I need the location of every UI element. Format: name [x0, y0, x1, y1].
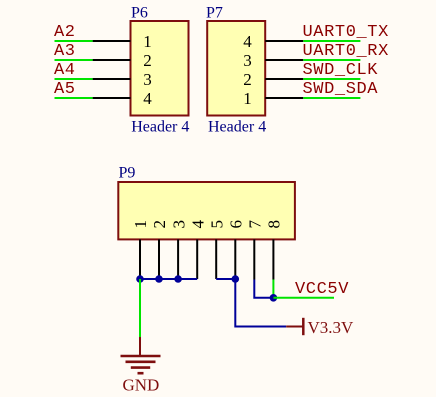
pin 8 (P9): [265, 220, 284, 280]
pin 4 (P6): [93, 89, 153, 108]
pin 7 (P9): [246, 220, 265, 280]
svg-text:7: 7: [246, 220, 265, 229]
wire pin7 elbow (blue): [254, 280, 273, 298]
svg-text:V3.3V: V3.3V: [308, 318, 355, 337]
pin 3 (P9): [169, 220, 188, 279]
svg-text:SWD_SDA: SWD_SDA: [303, 80, 379, 99]
svg-text:3: 3: [169, 220, 188, 229]
pin 2 (P7): [243, 70, 303, 89]
svg-text:P6: P6: [131, 5, 148, 22]
wire net UART0_TX: [303, 40, 360, 42]
svg-text:8: 8: [265, 220, 284, 229]
pin 1 (P7): [243, 89, 303, 108]
svg-text:P7: P7: [206, 5, 223, 22]
svg-text:UART0_TX: UART0_TX: [303, 23, 389, 42]
svg-text:VCC5V: VCC5V: [295, 280, 349, 299]
svg-text:4: 4: [143, 89, 152, 108]
wire pin6 to V3.3V (blue): [235, 279, 286, 327]
junction at pin 1: [136, 275, 144, 283]
svg-text:A3: A3: [54, 42, 76, 61]
pin 5 (P9): [207, 220, 226, 279]
connector P7 body: [207, 21, 265, 116]
wire bus pins 1-4 (blue): [140, 278, 197, 280]
svg-text:Header 4: Header 4: [208, 118, 266, 135]
pin 3 (P7): [243, 51, 303, 70]
wire net VCC5V (green): [273, 297, 334, 299]
svg-text:6: 6: [227, 220, 246, 229]
svg-text:1: 1: [243, 89, 252, 108]
svg-text:SWD_CLK: SWD_CLK: [303, 61, 379, 80]
svg-text:2: 2: [143, 51, 152, 70]
svg-text:P9: P9: [119, 165, 136, 182]
pin 4 (P9): [188, 220, 207, 280]
connector P6 body: [131, 21, 189, 116]
wire net UART0_RX: [303, 59, 360, 61]
svg-text:4: 4: [188, 220, 207, 229]
pin 3 (P6): [93, 70, 152, 89]
svg-text:3: 3: [243, 51, 252, 70]
junction at VCC5V node: [270, 294, 278, 302]
wire net A5: [55, 97, 93, 99]
connector P9 body: [118, 182, 295, 239]
pin 4 (P7): [243, 32, 303, 51]
junction at pin 6: [232, 275, 240, 283]
pin 2 (P6): [93, 51, 152, 70]
svg-text:1: 1: [143, 32, 152, 51]
svg-text:Header 4: Header 4: [131, 118, 189, 135]
svg-text:A4: A4: [54, 61, 76, 80]
svg-text:1: 1: [131, 220, 150, 229]
wire net A4: [55, 78, 93, 80]
svg-text:GND: GND: [123, 376, 160, 395]
junction at pin 2: [155, 275, 163, 283]
power port V3.3V: [286, 318, 354, 337]
svg-text:A5: A5: [54, 80, 76, 99]
svg-text:3: 3: [143, 70, 152, 89]
svg-text:2: 2: [243, 70, 252, 89]
pin 1 (P6): [93, 32, 152, 51]
wire net A2: [55, 40, 93, 42]
svg-text:2: 2: [150, 220, 169, 229]
pin 1 (P9): [131, 220, 150, 279]
svg-text:UART0_RX: UART0_RX: [303, 42, 389, 61]
svg-text:A2: A2: [54, 23, 76, 42]
ground symbol GND: [121, 337, 161, 395]
wire net A3: [55, 59, 93, 61]
wire pin1 to ground (green): [139, 279, 141, 337]
junction at pin 3: [174, 275, 182, 283]
pin 2 (P9): [150, 220, 169, 279]
wire pin8 down (green): [272, 280, 274, 298]
svg-text:4: 4: [243, 32, 252, 51]
wire pin5 to pin6 (blue): [216, 278, 235, 280]
svg-text:5: 5: [207, 220, 226, 229]
wire net SWD_SDA: [303, 97, 360, 99]
pin 6 (P9): [227, 220, 246, 279]
wire net SWD_CLK: [303, 78, 360, 80]
